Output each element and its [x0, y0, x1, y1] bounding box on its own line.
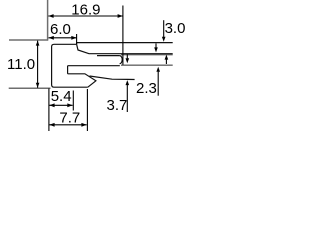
- dim 3.7 lower up arrow: [126, 84, 128, 112]
- svg-text:2.3: 2.3: [136, 80, 157, 97]
- pocket top line: [97, 55, 120, 57]
- svg-text:3.0: 3.0: [165, 20, 186, 37]
- svg-text:5.4: 5.4: [51, 88, 72, 105]
- svg-text:3.7: 3.7: [107, 97, 128, 114]
- dim 3.0 partner up arrow under lip line: [165, 59, 167, 64]
- mating frame edge (grey) bottom horizontal: [9, 87, 51, 89]
- dim 6.0 right arrowhead: [71, 36, 76, 40]
- dim 6.0 line: [49, 37, 77, 39]
- flap underside with chamfer: [77, 44, 173, 53]
- dim 11.0 bottom arrowhead: [36, 83, 40, 88]
- svg-text:6.0: 6.0: [50, 21, 71, 38]
- svg-text:7.7: 7.7: [59, 109, 80, 126]
- extension line right of 16.9: [122, 6, 124, 65]
- dim 2.3 lower up arrow with leader: [157, 72, 159, 96]
- dim 3.7 upper down arrow (inside slot): [126, 54, 128, 58]
- extension line right of 6.0: [76, 34, 78, 44]
- barb (beak): [68, 74, 96, 87]
- dim 3.0 leader arrow: [163, 20, 165, 38]
- extension line bottom mid: [72, 91, 74, 111]
- dim 2.3 upper down arrow: [155, 43, 157, 48]
- dim 11.0 top arrowhead: [36, 41, 40, 46]
- panel bottom edge (grey): [121, 64, 173, 66]
- mating frame edge (grey) vertical: [47, 0, 49, 41]
- hook left face: [67, 66, 69, 74]
- extension line bottom right: [86, 89, 88, 131]
- lower flexible lip (3.7): [90, 76, 135, 80]
- mating frame edge (grey) top horizontal: [9, 39, 48, 41]
- dim 5.4 line: [49, 104, 72, 106]
- profile top lip line: [77, 42, 173, 44]
- dim 11.0 line: [37, 41, 39, 88]
- svg-text:11.0: 11.0: [7, 56, 35, 73]
- dim 16.9 right arrowhead: [118, 14, 123, 18]
- panel top edge (grey): [121, 54, 173, 56]
- lower arm top / slot bottom: [68, 65, 120, 67]
- extension line bottom left: [48, 88, 50, 131]
- dim 16.9 left arrowhead: [48, 14, 53, 18]
- profile lip step: [76, 43, 78, 45]
- profile top face and left body outline: [52, 44, 88, 87]
- dim 7.7 line: [49, 124, 86, 126]
- svg-text:16.9: 16.9: [71, 2, 100, 19]
- dim 6.0 left arrowhead: [49, 36, 54, 40]
- pocket rounded end cap: [120, 56, 123, 64]
- dim 16.9 line: [48, 15, 123, 17]
